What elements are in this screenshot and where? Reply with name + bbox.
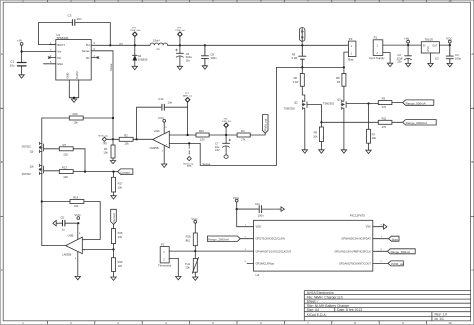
svg-text:PH: PH	[86, 43, 90, 47]
wire U3A plus input row	[169, 143, 276, 165]
ground below Q3	[341, 150, 346, 153]
svg-text:VSS: VSS	[366, 225, 371, 229]
junction C6	[179, 44, 181, 46]
wire node to R14	[42, 201, 70, 203]
wire Q2 gate down	[320, 105, 322, 123]
junction C5/VCC	[77, 222, 79, 224]
shunt resistor R5 0.2R	[292, 45, 306, 67]
svg-text:R5: R5	[292, 53, 296, 57]
svg-text:10k: 10k	[118, 235, 123, 239]
svg-text:GP5/T1CKI/OSC1/CLKIN: GP5/T1CKI/OSC1/CLKIN	[256, 237, 286, 241]
wire P1 pin2 to ground	[383, 53, 390, 64]
wire C3 to PH rail	[76, 23, 111, 46]
svg-text:Vin: Vin	[57, 50, 61, 54]
svg-text:MON_pos: MON_pos	[98, 135, 109, 137]
svg-text:220: 220	[63, 152, 68, 156]
svg-text:TP3: TP3	[187, 165, 192, 168]
capacitor C11	[237, 202, 280, 217]
wire U3A minus input row	[169, 134, 196, 136]
wire Q3 source to ground	[343, 111, 345, 150]
capacitor C8	[201, 45, 217, 66]
resistor R10	[69, 112, 83, 125]
svg-text:TP5: TP5	[102, 143, 107, 146]
svg-text:A: A	[472, 52, 474, 56]
svg-text:16V: 16V	[215, 148, 220, 152]
wire U3B output loop	[42, 202, 66, 246]
svg-text:VCC: VCC	[158, 116, 165, 120]
regulator U2 78L05	[421, 38, 439, 61]
svg-text:R16: R16	[118, 260, 123, 264]
svg-text:R9: R9	[314, 131, 318, 135]
svg-text:Input Supply: Input Supply	[369, 56, 385, 60]
ground right of C11	[279, 207, 284, 211]
resistor R6 0.1R	[293, 67, 305, 98]
junction C7	[225, 134, 227, 136]
junction at C1/Vin node	[21, 50, 23, 52]
svg-text:PWM_out: PWM_out	[391, 262, 404, 266]
capacitor C5	[56, 216, 78, 232]
svg-text:P1: P1	[374, 36, 378, 40]
wire P3 pin2 down	[343, 52, 345, 67]
resistor R14	[70, 196, 84, 209]
svg-text:0.2R: 0.2R	[292, 56, 298, 60]
svg-text:AVSA Electronics: AVSA Electronics	[307, 291, 334, 295]
wire VCC to VDD pin	[237, 209, 247, 227]
wire gate node to Current	[85, 171, 118, 173]
svg-text:R17: R17	[118, 182, 123, 186]
svg-text:NC: NC	[86, 56, 90, 60]
transistor Q2 TSM2302	[284, 99, 322, 111]
resistor R7 pulldown	[367, 129, 377, 150]
global label Range_500mA (mid)	[403, 100, 434, 106]
svg-text:U2: U2	[435, 56, 439, 60]
op-amp U3B LM358	[62, 223, 85, 276]
ground below R17	[111, 196, 116, 199]
svg-text:10k: 10k	[74, 204, 79, 208]
svg-text:R6: R6	[294, 76, 298, 80]
svg-text:10k: 10k	[372, 136, 377, 140]
ground below R16	[111, 277, 116, 280]
wire Q3 gate to R7 pulldown	[368, 104, 370, 130]
connector P2 Thermistor	[158, 243, 195, 277]
svg-text:10n: 10n	[76, 17, 81, 21]
fuse F1	[300, 28, 305, 46]
svg-text:Sense: Sense	[109, 63, 113, 71]
connector P1 Input Supply	[369, 36, 385, 61]
svg-text:Sheet: /: Sheet: /	[307, 300, 319, 304]
svg-text:BOOT: BOOT	[57, 43, 65, 47]
svg-text:GP4/AN3/T1G/OSC2/CLKOUT: GP4/AN3/T1G/OSC2/CLKOUT	[256, 249, 292, 253]
resistor R3 270	[378, 97, 402, 110]
ground left of C5 (rotated)	[53, 221, 56, 226]
capacitor C4	[446, 45, 461, 63]
capacitor C1	[10, 60, 26, 75]
wire PH pin to rail	[91, 44, 150, 46]
svg-text:1R: 1R	[337, 80, 340, 84]
junction R15/R16	[112, 248, 114, 250]
ground below C7	[224, 155, 228, 158]
connector P3 Batt	[344, 37, 356, 61]
op U1 TPS5430 box	[50, 33, 96, 80]
svg-text:Current: Current	[112, 213, 116, 223]
wire Sense vertical to shunt	[275, 67, 277, 165]
svg-text:C10: C10	[158, 97, 164, 101]
junction feedback/minus	[187, 134, 189, 136]
global label Range_2000mA (into GP5)	[207, 236, 247, 242]
svg-text:R15: R15	[118, 231, 123, 235]
resistor R12 150	[196, 129, 237, 142]
resistor R4	[237, 129, 265, 142]
wire output node to U3A	[137, 138, 153, 140]
ground below D1	[132, 66, 137, 69]
svg-text:Sense: Sense	[202, 162, 210, 166]
global label Start	[379, 236, 399, 241]
junction C11	[236, 208, 238, 210]
resistor R16	[112, 249, 124, 277]
ground below R9	[319, 150, 324, 153]
global label Current (mid)	[118, 169, 133, 175]
wire U1 Sense pin down	[91, 51, 113, 145]
svg-text:16v: 16v	[186, 59, 191, 63]
test point TP1	[130, 27, 141, 45]
global label Range_2000mA (mid)	[403, 120, 437, 126]
svg-text:KiCad E.D.A.: KiCad E.D.A.	[307, 313, 327, 317]
power port VCC (U3B)	[74, 213, 81, 219]
global label PWR_out	[379, 261, 404, 266]
svg-text:R8: R8	[336, 76, 340, 80]
svg-text:10u: 10u	[10, 63, 15, 67]
test point TP5 diamond	[98, 135, 113, 145]
svg-text:AMP_out: AMP_out	[183, 95, 192, 98]
resistor R11 270	[378, 116, 402, 129]
svg-text:8k2: 8k2	[186, 238, 191, 242]
ground below P1 pin2	[387, 63, 392, 66]
junction R17	[112, 171, 114, 173]
diode D1	[132, 45, 148, 66]
junction R7/R13 gates	[84, 171, 86, 173]
ground below C4	[447, 63, 452, 66]
svg-text:R1: R1	[104, 147, 108, 151]
svg-text:Range_2000mA: Range_2000mA	[406, 121, 428, 125]
svg-text:R2: R2	[124, 133, 128, 137]
op-amp U3A LM358	[150, 122, 170, 164]
power port +IN (left)	[17, 39, 23, 46]
junction thermistor node	[194, 250, 196, 252]
svg-text:R3: R3	[382, 97, 386, 101]
wire Q6 source down to R14 node	[41, 173, 43, 201]
svg-text:L1: L1	[157, 47, 161, 51]
thermistor TH1	[185, 251, 199, 277]
svg-text:VCC: VCC	[446, 36, 453, 40]
capacitor C2 (polarized)	[397, 45, 412, 64]
resistor R17	[112, 172, 124, 196]
svg-text:TPS5430: TPS5430	[56, 36, 68, 40]
wire sense node left to Sense vertical	[276, 66, 302, 68]
resistor R2	[113, 133, 137, 145]
wire C10 left branch	[137, 107, 161, 139]
svg-text:IN: IN	[423, 44, 426, 47]
title block	[304, 291, 470, 321]
test point TP2	[175, 27, 185, 45]
svg-text:2N7002: 2N7002	[22, 144, 32, 148]
svg-text:+IN: +IN	[404, 36, 409, 40]
junction R2/feedback	[112, 138, 114, 140]
svg-text:Batt: Batt	[348, 57, 353, 61]
svg-text:B: B	[1, 160, 3, 164]
ground below R7	[366, 150, 371, 153]
junction TP1/D1 on rail	[134, 44, 136, 46]
junction P3 branch	[343, 66, 345, 68]
svg-text:VCC: VCC	[191, 217, 198, 221]
svg-text:R4: R4	[241, 129, 245, 133]
junction TP3	[188, 142, 190, 144]
power port VCC (U3A)	[158, 116, 166, 122]
svg-text:Q6: Q6	[30, 165, 34, 169]
svg-text:Size: A4: Size: A4	[307, 308, 320, 312]
svg-text:10n: 10n	[167, 100, 172, 104]
wire Q2 source to ground	[304, 111, 306, 150]
svg-text:P3: P3	[349, 37, 353, 41]
svg-text:Rev: 1.0: Rev: 1.0	[435, 312, 448, 316]
svg-text:25v: 25v	[397, 60, 402, 64]
svg-text:100n: 100n	[258, 213, 264, 217]
svg-text:1u: 1u	[61, 227, 65, 231]
svg-text:R10: R10	[73, 112, 78, 116]
svg-text:Id: 1/1: Id: 1/1	[435, 317, 445, 321]
svg-text:B: B	[472, 160, 474, 164]
svg-text:PIC12F675: PIC12F675	[350, 214, 366, 218]
capacitor C7 (polarized)	[215, 135, 231, 155]
resistor R13 220	[59, 166, 84, 180]
svg-text:270: 270	[382, 105, 387, 109]
svg-text:TSM2302: TSM2302	[284, 106, 296, 110]
svg-text:10k: 10k	[185, 266, 190, 270]
global label Current (vertical)	[111, 209, 117, 224]
ground below U3B	[75, 276, 80, 279]
svg-text:Range_500mA: Range_500mA	[406, 101, 426, 105]
svg-text:10k: 10k	[313, 134, 318, 138]
junction Q3 gate	[367, 102, 369, 104]
svg-text:Date: 8 feb 2013: Date: 8 feb 2013	[337, 308, 362, 312]
svg-text:C: C	[471, 268, 473, 272]
power port VCC (top right)	[446, 36, 453, 45]
ground below C1	[19, 75, 24, 78]
wire Q3 gate row to R3	[369, 103, 379, 105]
test point TP4	[222, 118, 232, 135]
svg-text:Q3: Q3	[337, 97, 341, 101]
ground below R1	[110, 161, 115, 164]
svg-text:220u: 220u	[186, 55, 193, 59]
svg-text:10k: 10k	[73, 121, 78, 125]
test point TP3 diamond	[183, 145, 194, 168]
svg-text:LM358: LM358	[150, 146, 159, 150]
svg-text:TH1: TH1	[185, 262, 191, 266]
wire node to U1 Vin	[22, 51, 56, 53]
svg-text:U3A: U3A	[154, 129, 160, 133]
svg-text:10k: 10k	[103, 151, 108, 155]
global label PWM_out (vertical)	[262, 115, 268, 134]
U1 GND/PwPd bottom pins	[69, 80, 78, 99]
junction R10/sense	[112, 117, 114, 119]
junction U3A output node	[136, 138, 138, 140]
capacitor C6 (polarized)	[176, 45, 193, 66]
ground below U3A	[162, 164, 167, 167]
svg-text:GP3/MCLR/Vpp: GP3/MCLR/Vpp	[256, 261, 275, 265]
svg-text:220: 220	[63, 175, 68, 179]
svg-text:27k: 27k	[241, 138, 246, 142]
transistor Q5 2N7002	[22, 118, 60, 153]
svg-text:A: A	[1, 52, 3, 56]
resistor R15	[112, 224, 124, 249]
wire R14 to U3B minus input	[82, 202, 100, 240]
svg-text:150: 150	[200, 138, 205, 142]
ground below C2	[405, 63, 410, 66]
svg-text:Range_2000mA: Range_2000mA	[208, 238, 229, 242]
svg-text:GP2/AN2/T0CKI/INT/COUT: GP2/AN2/T0CKI/INT/COUT	[339, 261, 371, 265]
svg-text:Q5: Q5	[30, 149, 34, 153]
svg-text:R7: R7	[372, 132, 376, 136]
wire R10 row	[42, 117, 113, 119]
svg-text:R14: R14	[73, 196, 78, 200]
svg-text:C: C	[1, 268, 3, 272]
svg-text:R12: R12	[199, 129, 204, 133]
vss ground (rotated)	[379, 224, 387, 229]
svg-text:Sense: Sense	[82, 49, 90, 53]
svg-text:OUT: OUT	[432, 44, 438, 47]
wire L1 to shunt node	[168, 44, 346, 46]
svg-text:LM358: LM358	[62, 253, 71, 257]
junction C4	[449, 44, 451, 46]
svg-text:+IN: +IN	[17, 39, 22, 43]
svg-text:1.5M_SH: 1.5M_SH	[222, 121, 232, 123]
resistor R1	[103, 145, 115, 161]
resistor R18 8k2	[186, 233, 198, 251]
capacitor C10	[158, 97, 187, 110]
ground below Q2	[302, 150, 307, 153]
ground below U1	[71, 99, 76, 102]
junction R14 node	[41, 200, 43, 202]
resistor R7 220	[59, 143, 85, 172]
svg-text:2N7002: 2N7002	[22, 172, 32, 176]
svg-text:Range_500mA: Range_500mA	[391, 250, 410, 254]
svg-text:PWR_out: PWR_out	[175, 29, 185, 32]
svg-text:VDD: VDD	[256, 225, 262, 229]
svg-text:TSM2302: TSM2302	[323, 102, 335, 106]
junction C3/rail	[109, 44, 111, 46]
svg-text:P2: P2	[161, 243, 165, 247]
svg-text:C5: C5	[60, 216, 64, 220]
ground below C8	[202, 66, 207, 69]
wire sense node right to P3 branch	[302, 66, 344, 68]
wire BOOT to C3	[39, 23, 72, 45]
capacitor C3	[68, 13, 82, 25]
svg-text:13k: 13k	[124, 142, 129, 146]
svg-text:0.1R: 0.1R	[293, 80, 299, 84]
svg-text:R11: R11	[382, 116, 387, 120]
wire node to PIC GP4	[195, 250, 253, 252]
junction shunt bottom	[301, 66, 303, 68]
inductor L1	[150, 39, 168, 51]
U2 gnd pin	[430, 53, 432, 63]
svg-text:15uH: 15uH	[153, 39, 160, 43]
svg-text:U4: U4	[256, 273, 260, 277]
transistor Q6 2N7002	[22, 151, 60, 175]
svg-text:PWM_out: PWM_out	[264, 119, 268, 132]
power port VCC (thermistor)	[191, 217, 198, 233]
ground below C6	[177, 66, 182, 69]
svg-text:1N5819: 1N5819	[138, 57, 148, 61]
svg-text:GND: GND	[427, 46, 430, 52]
svg-text:270: 270	[382, 125, 387, 129]
svg-text:PwPd: PwPd	[75, 71, 79, 79]
transistor Q3 TSM2302	[323, 97, 369, 111]
ground below U2	[428, 63, 433, 66]
svg-text:VCC: VCC	[74, 213, 81, 217]
svg-text:100n: 100n	[210, 56, 217, 60]
wire U2 out to VCC node	[439, 44, 449, 46]
power port VCC (U4)	[233, 196, 240, 209]
junction Q2 gate / R9	[320, 121, 322, 123]
svg-text:GP1/AN1/CIN-/VREF/ICSPCLK: GP1/AN1/CIN-/VREF/ICSPCLK	[334, 249, 371, 253]
junction shunt top	[301, 44, 303, 46]
ic U4 PIC12F675	[245, 214, 383, 277]
ground below P2 pin2	[176, 277, 181, 280]
wire P1 pin1 to +IN node	[383, 44, 422, 46]
global label Range_500mA (pic)	[379, 249, 415, 254]
svg-text:out: out	[119, 42, 123, 46]
svg-text:R7: R7	[63, 143, 67, 147]
svg-text:C11: C11	[255, 202, 260, 206]
svg-text:VCC: VCC	[233, 196, 240, 200]
svg-text:10k: 10k	[118, 185, 123, 189]
svg-text:R18: R18	[186, 235, 191, 239]
svg-text:100n: 100n	[455, 57, 462, 61]
test point TP7	[183, 93, 192, 135]
svg-text:Start: Start	[392, 237, 398, 241]
svg-text:NC: NC	[57, 56, 61, 60]
svg-text:-: -	[83, 239, 84, 242]
svg-text:R13: R13	[62, 166, 67, 170]
junction C2	[407, 44, 409, 46]
ground below TH1	[193, 277, 198, 280]
svg-text:Q2: Q2	[294, 101, 298, 105]
svg-text:ENA: ENA	[57, 62, 63, 66]
svg-text:-: -	[166, 133, 167, 136]
svg-text:PWR_SH+: PWR_SH+	[130, 30, 141, 32]
svg-text:C3: C3	[68, 13, 72, 17]
svg-text:1k5: 1k5	[118, 264, 123, 268]
svg-text:GP0/AN0/CIN+/ICSPDAT: GP0/AN0/CIN+/ICSPDAT	[341, 237, 371, 241]
svg-text:Current: Current	[120, 170, 130, 174]
junction C8	[204, 44, 206, 46]
svg-text:78L05: 78L05	[425, 38, 434, 42]
svg-text:U3B: U3B	[68, 234, 74, 238]
wire Q2 gate row to R11	[321, 121, 378, 123]
svg-text:Thermistor: Thermistor	[158, 263, 171, 267]
power port +IN (right)	[404, 36, 410, 45]
U1 pin stubs	[44, 45, 99, 64]
resistor R8 1R	[336, 67, 346, 98]
resistor R9	[313, 122, 323, 150]
wire +IN to C1/Vin node	[21, 45, 23, 62]
svg-text:GND: GND	[66, 73, 70, 79]
wire U3B plus input row	[82, 248, 113, 250]
